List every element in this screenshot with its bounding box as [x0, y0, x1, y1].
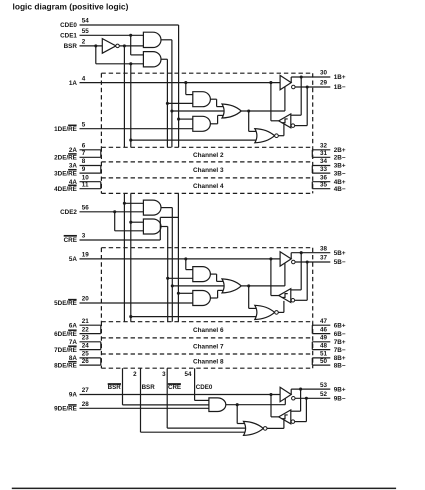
node CRE tap gate B channel 5 — [177, 292, 180, 295]
wire 7B+ stub bracket — [311, 342, 313, 350]
wire 9B+ to receiver input — [300, 389, 302, 411]
driver D1 inverted output bubble — [292, 85, 296, 89]
wire 5B+ to receiver input — [300, 253, 302, 290]
svg-text:6B+: 6B+ — [334, 322, 346, 329]
svg-text:9B−: 9B− — [334, 396, 346, 403]
svg-text:4: 4 — [82, 75, 86, 82]
wire BSR elbow to gate T2 — [95, 46, 97, 64]
wire driver tip riser channel 9 — [290, 389, 292, 394]
output 7B+ pin 49 — [312, 341, 330, 343]
svg-text:6A: 6A — [69, 322, 78, 329]
wire M2 output — [161, 226, 168, 228]
svg-text:Channel 2: Channel 2 — [193, 152, 224, 159]
node 1A tap to receiver output — [269, 81, 272, 84]
svg-text:54: 54 — [82, 18, 90, 25]
svg-text:2DE/RE: 2DE/RE — [54, 155, 77, 162]
wire 2A stub bracket — [100, 150, 102, 158]
node T1 output tap to OR — [170, 109, 173, 112]
svg-text:48: 48 — [320, 342, 328, 349]
output 3B+ pin 34 — [312, 165, 330, 167]
svg-text:37: 37 — [320, 255, 328, 262]
wire 8B+ stub bracket — [311, 358, 313, 365]
wire CDE0 rail to channel 9 pin 54 — [194, 368, 196, 400]
node CDE2 junction — [113, 210, 116, 213]
svg-text:11: 11 — [82, 181, 89, 188]
svg-text:8B+: 8B+ — [334, 355, 346, 362]
svg-text:logic diagram (positive logic): logic diagram (positive logic) — [13, 1, 129, 11]
output 6B+ pin 47 — [312, 324, 330, 326]
output 7B&#8722; pin 48 — [312, 349, 330, 351]
wire BSR vertical rail mid — [130, 193, 132, 321]
node 5A tap to gate A — [184, 257, 187, 260]
node BSR tap channel5 NOR — [129, 315, 132, 318]
svg-text:52: 52 — [320, 391, 328, 398]
svg-text:20: 20 — [82, 296, 90, 303]
output 2B+ pin 32 — [312, 149, 330, 151]
channel 2-4 dashed grid — [101, 146, 312, 148]
svg-text:4B+: 4B+ — [334, 179, 346, 186]
svg-text:24: 24 — [82, 342, 90, 349]
wire receiver output to 1A — [271, 120, 279, 122]
wire M1 output — [161, 207, 172, 209]
wire BSR to gate M2 — [131, 221, 144, 223]
driver D9 inverted output bubble — [292, 397, 296, 401]
wire 7A stub bracket — [100, 342, 102, 350]
wire BSR to NOR channel 1 — [129, 139, 132, 142]
wire AND out drop to NOR channel 9 — [236, 405, 238, 424]
svg-text:26: 26 — [82, 358, 90, 365]
wire driver enable riser — [284, 87, 286, 111]
svg-text:6B−: 6B− — [334, 331, 346, 338]
svg-text:9A: 9A — [69, 392, 78, 399]
node 9B- tap — [305, 397, 308, 400]
AND gate T1 — [143, 32, 161, 47]
svg-text:8B−: 8B− — [334, 362, 346, 369]
svg-text:49: 49 — [320, 335, 328, 342]
node OR output junction — [247, 109, 250, 112]
AND gate T2 — [143, 52, 161, 67]
svg-text:6: 6 — [82, 143, 86, 150]
wire OR output / driver enable channel 5 — [241, 285, 285, 287]
svg-text:34: 34 — [320, 158, 328, 165]
wire BSR to NOR channel 5 — [131, 316, 258, 318]
wire gate B output elbow channel 5 — [210, 297, 217, 299]
node M2 output tap — [166, 277, 169, 280]
node BSR junction — [94, 44, 97, 47]
output 5B&#8722; pin 37 — [295, 261, 330, 263]
svg-text:2B−: 2B− — [334, 155, 346, 162]
svg-text:47: 47 — [320, 318, 328, 325]
svg-text:31: 31 — [320, 150, 328, 157]
channel 6-8 dashed grid — [101, 321, 312, 323]
svg-text:CDE0: CDE0 — [60, 22, 77, 29]
svg-text:8: 8 — [82, 158, 86, 165]
svg-text:9B+: 9B+ — [334, 386, 346, 393]
wire 3A stub bracket — [100, 166, 102, 174]
wire gate A output elbow — [210, 98, 216, 100]
svg-text:BSR: BSR — [108, 384, 122, 391]
wire CRE to gate B channel 5 — [178, 292, 192, 294]
wire BSRbar vertical rail upper — [123, 46, 125, 147]
wire 5A drop to gate A — [185, 259, 187, 270]
wire driver enable riser channel 5 — [284, 263, 286, 286]
channel 1 dashed box — [101, 72, 312, 74]
svg-text:3A: 3A — [69, 163, 78, 170]
svg-text:2: 2 — [133, 371, 137, 378]
svg-text:CDE1: CDE1 — [60, 33, 77, 40]
svg-text:19: 19 — [82, 252, 90, 259]
AND gate channel 9 — [209, 398, 226, 412]
channel 5 dashed box — [101, 247, 312, 249]
node 1B+ tap — [300, 75, 303, 78]
NOR gate channel 5 — [255, 305, 275, 319]
wire driver tip riser — [290, 77, 292, 83]
node 1A tap to gate A — [184, 81, 187, 84]
wire M2out to gate A channel 5 — [168, 277, 193, 279]
svg-text:36: 36 — [320, 174, 328, 181]
svg-text:Channel 7: Channel 7 — [193, 343, 224, 350]
wire AND output / driver enable channel 9 — [226, 404, 285, 406]
svg-text:7B+: 7B+ — [334, 339, 346, 346]
svg-text:2B+: 2B+ — [334, 147, 346, 154]
svg-text:3DE/RE: 3DE/RE — [54, 170, 77, 177]
svg-text:2A: 2A — [69, 147, 78, 154]
wire CRE riser — [159, 217, 161, 240]
AND gate A channel 1 — [193, 92, 211, 107]
AND gate B channel 1 — [193, 116, 211, 131]
output 9B&#8722; pin 52 — [295, 397, 330, 399]
svg-text:7B−: 7B− — [334, 347, 346, 354]
svg-text:25: 25 — [82, 351, 90, 358]
wire T2out to gate A — [167, 102, 192, 104]
driver D9 channel 9 — [280, 387, 291, 401]
output 1B+ pin 30 — [291, 76, 330, 78]
node 5A tap to receiver output — [269, 257, 272, 260]
svg-text:21: 21 — [82, 318, 90, 325]
wire 2B+ stub bracket — [311, 150, 313, 158]
wire T1 output — [161, 39, 172, 41]
NOR gate channel 1 — [255, 129, 275, 143]
svg-text:3B−: 3B− — [334, 170, 346, 177]
svg-text:3: 3 — [162, 371, 166, 378]
wire CRE vertical rail — [177, 193, 179, 321]
svg-text:4DE/RE: 4DE/RE — [54, 186, 77, 193]
svg-text:55: 55 — [82, 28, 90, 35]
svg-text:27: 27 — [82, 387, 90, 394]
svg-text:CDE0: CDE0 — [196, 384, 213, 391]
wire 9B- to receiver input — [305, 398, 307, 421]
OR gate channel 1 — [222, 104, 241, 118]
wire 1B- to receiver input — [306, 87, 308, 126]
svg-text:1B−: 1B− — [334, 84, 346, 91]
node BSR tap gate M2 — [129, 221, 132, 224]
svg-text:51: 51 — [320, 351, 328, 358]
svg-text:56: 56 — [82, 205, 90, 212]
receiver R1 channel 1 — [279, 114, 291, 128]
node BSRbar tap gate M1 — [123, 202, 126, 205]
svg-text:CRE: CRE — [64, 237, 77, 244]
svg-text:CDE2: CDE2 — [60, 209, 77, 216]
svg-text:50: 50 — [320, 358, 328, 365]
output 6B&#8722; pin 46 — [312, 333, 330, 335]
svg-text:BSR: BSR — [142, 384, 156, 391]
output 2B&#8722; pin 31 — [312, 156, 330, 158]
receiver R5 inverting input bubble — [291, 299, 295, 303]
wire 8A stub bracket — [100, 358, 102, 365]
svg-text:29: 29 — [320, 80, 328, 87]
NOR gate channel 9 — [244, 421, 264, 435]
AND gate M2 — [143, 219, 161, 234]
svg-text:22: 22 — [82, 326, 90, 333]
node 9A tap to receiver output — [269, 393, 272, 396]
svg-text:5B−: 5B− — [334, 259, 346, 266]
wire BSR vertical rail upper — [130, 64, 132, 147]
wire 3B+ stub bracket — [311, 166, 313, 174]
wire OR output / driver enable — [241, 110, 285, 112]
wire 1A drop to gate A — [185, 83, 187, 95]
svg-text:53: 53 — [320, 382, 328, 389]
output 4B&#8722; pin 35 — [312, 188, 330, 190]
wire BSRbar to gate M1 — [124, 202, 143, 204]
output 8B&#8722; pin 50 — [312, 364, 330, 366]
svg-text:3: 3 — [82, 233, 86, 240]
output 9B+ pin 53 — [291, 388, 330, 390]
wire driver enable riser channel 9 — [284, 398, 286, 404]
receiver R5 channel 5 — [279, 289, 291, 303]
wire NOR out to receiver enable channel 9 — [267, 427, 284, 429]
driver D1 channel 1 — [280, 75, 291, 89]
wire T1out to OR — [172, 110, 226, 112]
AND gate A channel 5 — [193, 267, 211, 282]
svg-text:Channel 3: Channel 3 — [193, 167, 224, 174]
wire BSR rail to channel 9 pin 2 — [140, 368, 142, 432]
wire 4B+ stub bracket — [311, 182, 313, 189]
svg-text:5B+: 5B+ — [334, 250, 346, 257]
AND gate B channel 5 — [193, 291, 211, 306]
node OR output junction channel 5 — [247, 284, 250, 287]
node AND output junction channel 9 — [236, 403, 239, 406]
output 3B&#8722; pin 33 — [312, 172, 330, 174]
wire gate A output elbow channel 5 — [210, 273, 216, 275]
wire gate B output elbow — [210, 123, 217, 125]
receiver R9 inverting input bubble — [291, 420, 295, 424]
wire 1B+ to receiver input — [300, 77, 302, 115]
wire receiver output to 9A — [271, 416, 279, 418]
wire BSRbar vertical rail mid — [123, 193, 125, 321]
wire receiver output to 5A — [271, 295, 279, 297]
svg-text:Channel 8: Channel 8 — [193, 359, 224, 366]
svg-text:23: 23 — [82, 335, 90, 342]
wire CDE2 elbow to gate M2 — [114, 212, 116, 231]
svg-text:10: 10 — [82, 174, 90, 181]
inverter U1 on BSR — [102, 39, 116, 54]
wire 6B+ stub bracket — [311, 325, 313, 333]
node 1B- tap — [306, 85, 309, 88]
receiver R9 channel 9 — [279, 410, 291, 424]
footer rule — [12, 488, 396, 490]
svg-text:5DE/RE: 5DE/RE — [54, 300, 77, 307]
wire OR out drop to NOR — [248, 111, 250, 131]
svg-text:30: 30 — [320, 70, 328, 77]
node BSRbar rail junction — [123, 44, 126, 47]
wire 6A stub bracket — [100, 325, 102, 333]
svg-text:46: 46 — [320, 326, 328, 333]
node M1 output tap to OR channel 5 — [171, 284, 174, 287]
svg-text:33: 33 — [320, 166, 328, 173]
svg-text:2: 2 — [82, 39, 86, 46]
AND gate M1 — [143, 200, 161, 215]
svg-text:54: 54 — [185, 371, 192, 378]
output 8B+ pin 51 — [312, 357, 330, 359]
svg-text:4B−: 4B− — [334, 186, 346, 193]
wire NOR out to receiver enable — [278, 135, 284, 137]
svg-text:7: 7 — [82, 150, 86, 157]
wire 4A stub bracket — [100, 182, 102, 189]
wire OR out drop to NOR channel 5 — [248, 286, 250, 309]
svg-text:7DE/RE: 7DE/RE — [54, 347, 77, 354]
svg-text:CRE: CRE — [168, 384, 181, 391]
output 4B+ pin 36 — [312, 181, 330, 183]
wire NOR out to receiver enable channel 5 — [278, 311, 284, 313]
output 1B&#8722; pin 29 — [295, 86, 330, 88]
wire BSRbar to gate T1 — [119, 45, 143, 47]
svg-text:1A: 1A — [69, 80, 78, 87]
wire CDE1 elbow to gate T2 — [130, 35, 132, 55]
wire 5B- to receiver input — [306, 262, 308, 300]
node 9B+ tap — [299, 388, 302, 391]
svg-text:28: 28 — [82, 401, 90, 408]
node CDE0 tap to gate B — [177, 118, 180, 121]
wire T2 output — [161, 58, 168, 60]
svg-text:1B+: 1B+ — [334, 74, 346, 81]
wire CRE rail to channel 9 pin 3 — [166, 368, 168, 428]
node 5B+ tap — [300, 251, 303, 254]
svg-text:32: 32 — [320, 143, 328, 150]
OR gate channel 5 — [222, 279, 241, 293]
wire M1out to OR channel 5 — [172, 285, 225, 287]
output 5B+ pin 38 — [291, 252, 330, 254]
svg-text:3B+: 3B+ — [334, 163, 346, 170]
svg-text:Channel 4: Channel 4 — [193, 183, 224, 190]
node T2 output tap — [166, 102, 169, 105]
receiver R1 inverting input bubble — [291, 124, 295, 128]
driver D5 channel 5 — [280, 252, 291, 266]
svg-text:8DE/RE: 8DE/RE — [54, 362, 77, 369]
driver D5 inverted output bubble — [292, 260, 296, 264]
svg-text:1DE/RE: 1DE/RE — [54, 126, 77, 133]
svg-text:5A: 5A — [69, 256, 78, 263]
svg-text:7A: 7A — [69, 339, 78, 346]
svg-text:5: 5 — [82, 121, 86, 128]
node CDE1 tap — [129, 34, 132, 37]
svg-text:9DE/RE: 9DE/RE — [54, 406, 77, 413]
node BSR rail junction — [129, 62, 132, 65]
svg-text:6DE/RE: 6DE/RE — [54, 331, 77, 338]
svg-text:9: 9 — [82, 166, 86, 173]
svg-text:BSR: BSR — [64, 43, 78, 50]
svg-text:35: 35 — [320, 181, 328, 188]
wire driver tip riser channel 5 — [290, 253, 292, 259]
wire CDE0 vertical rail — [178, 25, 180, 147]
svg-text:38: 38 — [320, 245, 328, 252]
node 5B- tap — [306, 260, 309, 263]
svg-text:Channel 6: Channel 6 — [193, 327, 224, 334]
wire BSRbar rail to channel 9 — [122, 368, 124, 405]
